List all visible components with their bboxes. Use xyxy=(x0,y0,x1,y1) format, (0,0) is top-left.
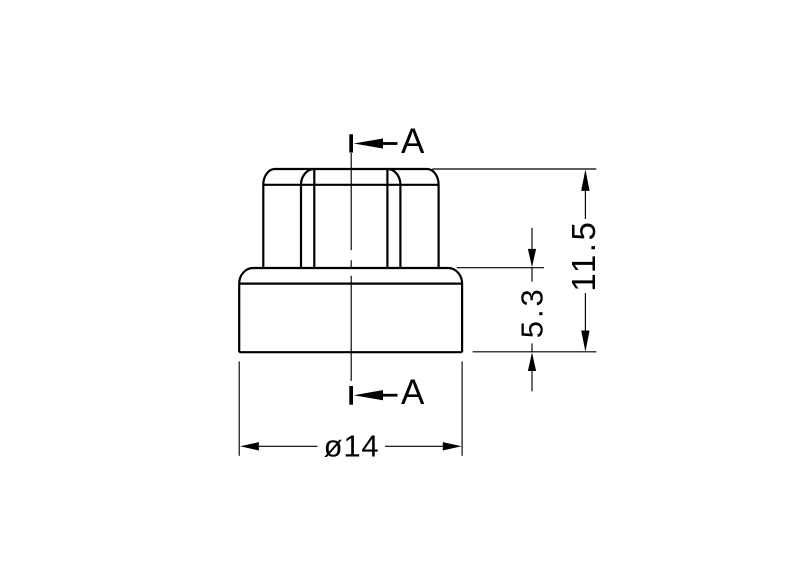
section arrow bottom xyxy=(354,390,383,400)
cap tangent line xyxy=(263,184,438,186)
extension line dia14 right xyxy=(461,361,463,455)
extension line dia14 left xyxy=(238,361,240,455)
cap facet line right inner xyxy=(386,169,388,268)
center line A-A (dash-dot) xyxy=(350,153,352,250)
dimension line dia14 segments xyxy=(258,445,318,447)
arrowhead 5.3 upper (points down) xyxy=(528,249,536,267)
section tick top xyxy=(349,134,353,152)
svg-text:A: A xyxy=(401,373,425,412)
section tick bottom xyxy=(349,386,353,405)
cap outline xyxy=(239,169,462,352)
arrowhead 5.3 lower (points up) xyxy=(528,352,536,371)
svg-text:5.3: 5.3 xyxy=(515,286,550,338)
extension line flange top (5.3) xyxy=(457,267,544,269)
extension line top (11.5) xyxy=(432,168,596,170)
cap facet line right outer with arc xyxy=(387,169,400,268)
cap facet line left outer with arc xyxy=(301,169,314,268)
cap facet line left inner xyxy=(313,169,315,268)
arrowhead 11.5 bottom xyxy=(581,331,589,352)
arrowhead dia14 left xyxy=(240,442,259,450)
svg-text:11.5: 11.5 xyxy=(565,220,602,292)
flange outline xyxy=(239,268,462,352)
svg-text:A: A xyxy=(401,122,425,161)
section arrow top xyxy=(354,138,383,148)
arrowhead dia14 right xyxy=(443,442,462,450)
extension line bottom (5.3 / 11.5) xyxy=(473,351,597,353)
dimension line 11.5 segments xyxy=(584,190,586,219)
dimension line 5.3 segments xyxy=(531,228,533,249)
flange tangent line xyxy=(239,283,462,285)
flange bottom line xyxy=(239,351,462,353)
svg-text:ø14: ø14 xyxy=(324,428,380,463)
arrowhead 11.5 top xyxy=(581,169,589,191)
